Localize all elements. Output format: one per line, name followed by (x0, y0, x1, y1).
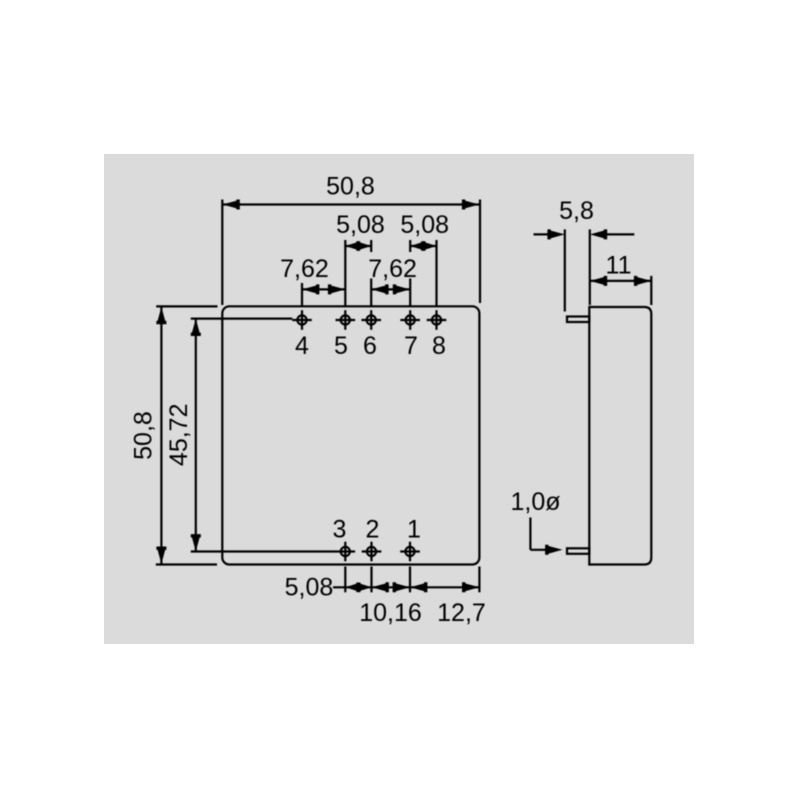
svg-text:5: 5 (334, 332, 348, 360)
svg-text:3: 3 (333, 516, 347, 544)
svg-text:45,72: 45,72 (165, 404, 193, 467)
svg-text:2: 2 (366, 516, 380, 544)
svg-text:50,8: 50,8 (130, 411, 158, 460)
svg-text:10,16: 10,16 (359, 599, 422, 627)
svg-text:5,08: 5,08 (400, 211, 449, 239)
svg-text:5,8: 5,8 (559, 197, 594, 225)
svg-text:6: 6 (363, 332, 377, 360)
svg-text:50,8: 50,8 (326, 173, 375, 201)
svg-text:5,08: 5,08 (285, 574, 334, 602)
svg-text:8: 8 (432, 332, 446, 360)
svg-text:7,62: 7,62 (280, 255, 329, 283)
svg-text:5,08: 5,08 (336, 211, 385, 239)
svg-text:4: 4 (295, 332, 309, 360)
svg-text:1,0ø: 1,0ø (510, 488, 560, 516)
svg-text:11: 11 (606, 252, 632, 280)
svg-text:1: 1 (407, 516, 421, 544)
svg-text:12,7: 12,7 (437, 599, 486, 627)
svg-text:7: 7 (404, 332, 418, 360)
